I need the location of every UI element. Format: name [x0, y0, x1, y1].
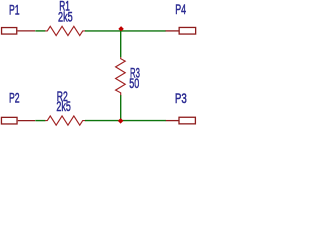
port P3 [166, 117, 196, 124]
wire node A to P4 pin [121, 30, 166, 32]
wire R1 to node A [85, 30, 121, 32]
svg-text:50: 50 [129, 75, 139, 91]
port P2 [1, 117, 35, 124]
port P1 [2, 28, 36, 35]
port P4 [166, 27, 196, 34]
junction node A [119, 27, 123, 31]
wire R2 to node B [85, 120, 121, 122]
resistor R1 [45, 26, 85, 35]
svg-text:P4: P4 [175, 1, 186, 17]
junction node B [118, 119, 122, 123]
wire P1 to R1 [35, 30, 45, 32]
wire node B to P3 pin [121, 120, 166, 122]
svg-text:P1: P1 [9, 2, 20, 18]
wire R3 to node B [120, 95, 122, 120]
svg-text:P2: P2 [9, 90, 20, 106]
wire node A to R3 [120, 31, 122, 57]
resistor R2 [45, 116, 85, 125]
svg-text:2k5: 2k5 [58, 9, 73, 25]
svg-text:P3: P3 [175, 90, 187, 106]
resistor R3 [116, 57, 126, 96]
wire P2 to R2 [35, 120, 45, 122]
svg-text:2k5: 2k5 [56, 98, 71, 114]
